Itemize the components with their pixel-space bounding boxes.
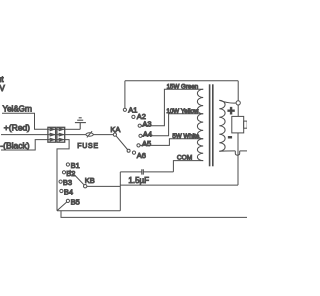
switch KA arm (116, 136, 127, 150)
connector socket XS (right half) (57, 127, 65, 142)
earth ground symbol (pointing up) (75, 118, 86, 130)
svg-text:B5: B5 (71, 197, 80, 206)
terminal circle plus (236, 101, 240, 105)
wire junction to battery negative (120, 184, 238, 186)
svg-text:KB: KB (85, 176, 95, 185)
contact B2 (62, 171, 65, 174)
svg-text:A6: A6 (137, 151, 146, 160)
svg-text:15W Green: 15W Green (167, 83, 199, 90)
contact A1 (123, 108, 126, 111)
wire A3 to 15W Green tap (141, 89, 203, 125)
wire COM tap (173, 161, 203, 172)
svg-text:-(Black): -(Black) (0, 141, 29, 151)
svg-text:Input: Input (0, 75, 4, 84)
wire A4 to 10W Yellow tap (142, 114, 203, 136)
contact B4 (60, 189, 63, 192)
contact B1 (66, 163, 69, 166)
svg-text:10W Yellow: 10W Yellow (166, 108, 199, 115)
contact A4 (139, 134, 142, 137)
svg-text:KA: KA (110, 125, 120, 134)
capacitor C wire right (143, 171, 173, 173)
svg-text:B3: B3 (63, 178, 72, 187)
svg-text:5W White: 5W White (172, 133, 199, 140)
svg-text:COM: COM (177, 154, 192, 161)
wire top rail drop to plus terminal (237, 81, 239, 101)
wire secondary bottom exits right (240, 150, 247, 152)
svg-text:FUSE: FUSE (77, 143, 98, 150)
svg-text:A4: A4 (143, 129, 152, 138)
contact A6 (132, 151, 135, 154)
battery GB side tab (244, 121, 248, 128)
svg-text:+: + (227, 104, 234, 118)
svg-text:220V: 220V (0, 84, 5, 93)
wire top rail (125, 80, 238, 82)
wire B5 to junction (57, 202, 66, 210)
wire A1 riser to top rail (124, 81, 126, 108)
svg-text:A3: A3 (142, 119, 151, 128)
capacitor C 1.5uF (142, 169, 144, 174)
contact A2 (132, 115, 135, 118)
svg-text:+(Red): +(Red) (4, 122, 30, 132)
wire secondary top lead (219, 100, 236, 103)
wire hop under battery lead (235, 151, 239, 155)
wire +(Red) to connector row2 (1, 134, 48, 136)
connector plug XP (left half) (48, 127, 56, 142)
transformer T secondary winding (219, 100, 225, 151)
wire junction bottom horizontal (57, 210, 120, 212)
wire block row3 down to junction (57, 140, 69, 211)
transformer T primary winding (197, 89, 203, 160)
fuse FU (86, 133, 93, 136)
wire row1 to earth (65, 128, 81, 130)
switch KB common terminal (84, 185, 87, 188)
switch KB arm (70, 170, 84, 185)
svg-text:-: - (228, 130, 232, 144)
wire KB common to junction (87, 185, 120, 187)
wire fuse to KA (93, 134, 113, 136)
svg-text:Yel&Grn: Yel&Grn (3, 105, 33, 114)
contact B3 (59, 180, 62, 183)
svg-text:B2: B2 (66, 169, 75, 178)
wire A5 to 5W White tap (140, 139, 203, 146)
switch KA pivot (113, 133, 116, 136)
wire connector rows passing through (48, 129, 65, 139)
wire Yel&Grn to connector row1 (2, 113, 48, 129)
wire row2 to fuse (65, 134, 86, 136)
transformer T core (209, 84, 211, 166)
wire secondary bottom lead (219, 150, 235, 152)
capacitor C wire left (120, 171, 142, 173)
svg-text:B4: B4 (64, 188, 73, 197)
wire -(Black) to connector row3 (1, 140, 48, 150)
svg-text:1.5µF: 1.5µF (128, 176, 149, 185)
contact B5 (66, 199, 69, 202)
contact A3 (138, 124, 141, 127)
svg-text:A5: A5 (142, 139, 151, 148)
wire drop to bottom rail (61, 211, 247, 218)
battery GB body (232, 116, 244, 132)
wire junction vertical (119, 172, 121, 211)
contact A5 (137, 144, 140, 147)
wire plus terminal to battery (237, 105, 239, 116)
wire battery negative lead down (237, 133, 239, 185)
switch KA arm tip circle (127, 149, 130, 152)
